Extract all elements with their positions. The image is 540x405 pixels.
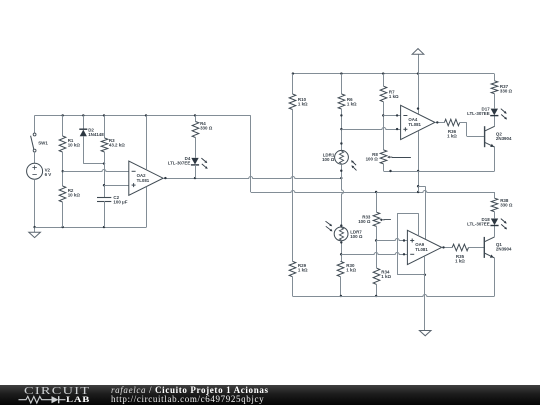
wire Q2 emitter down bbox=[494, 147, 496, 171]
svg-text:R351 kΩ: R351 kΩ bbox=[455, 254, 465, 263]
diode D2 bbox=[79, 129, 87, 136]
label D2 1N4148 bbox=[88, 127, 104, 136]
wire OA9 V- pin to ground bbox=[424, 256, 426, 330]
transistor Q2 bbox=[485, 126, 495, 147]
label R33 100 bbox=[358, 214, 371, 223]
svg-text:R101 kΩ: R101 kΩ bbox=[298, 97, 308, 106]
wire OA4 V- pin down to mid rail bbox=[417, 131, 419, 192]
junction dots bottom-left rail bbox=[62, 226, 106, 228]
svg-text:R291 kΩ: R291 kΩ bbox=[298, 263, 308, 272]
wire R8 bottom lead bbox=[383, 164, 385, 171]
footer url line bbox=[111, 394, 264, 404]
label R35 1k bbox=[455, 254, 465, 263]
LED D17 emission arrows bbox=[501, 109, 507, 120]
wire V2 to ground bbox=[34, 179, 36, 232]
resistor R38 bbox=[491, 198, 498, 212]
label Q1 2N3904 bbox=[496, 242, 512, 251]
label R8 100 bbox=[366, 152, 379, 161]
resistor R35 bbox=[452, 244, 468, 251]
power flag VCC arrow bbox=[412, 49, 424, 74]
wire D2 bottom L to R3 node bbox=[83, 136, 105, 165]
wire R1-R2 junction node A bbox=[62, 152, 64, 186]
svg-text:R361 kΩ: R361 kΩ bbox=[447, 129, 457, 138]
resistor R10 bbox=[289, 94, 296, 110]
svg-text:LDR1100 Ω: LDR1100 Ω bbox=[322, 153, 335, 162]
wire VCC to OA4 V+ pin bbox=[417, 74, 419, 114]
label R3 43.2k bbox=[109, 138, 125, 147]
svg-text:R301 kΩ: R301 kΩ bbox=[346, 263, 356, 272]
wire OA2 inverting input from R1-R2 node bbox=[63, 170, 129, 172]
label D17 LTL-307EE bbox=[467, 107, 490, 116]
label R6 1k bbox=[347, 97, 357, 106]
wire OA2 output node OUT1 bbox=[163, 177, 341, 179]
wire R33 to node C bbox=[375, 226, 377, 241]
LED D18 emission arrows bbox=[501, 219, 507, 230]
wire OA9 feedback vertical bbox=[397, 213, 426, 276]
wire R38 to D18 bbox=[494, 212, 496, 219]
resistor R1 bbox=[59, 136, 66, 152]
svg-text:C2100 μF: C2100 μF bbox=[113, 195, 127, 204]
wire rail drop from top-left rail bbox=[250, 115, 252, 192]
wire OA4 non-inverting input line bbox=[341, 128, 400, 131]
wire emitter return line Q2 bbox=[384, 170, 495, 172]
label SW1 bbox=[38, 141, 48, 146]
svg-text:SW1: SW1 bbox=[38, 141, 48, 146]
resistor R6 bbox=[338, 94, 345, 109]
CircuitLab logo glyph wire-resistor-diode bbox=[18, 395, 66, 405]
LED D18 bbox=[490, 219, 498, 226]
wire bottom-left rail node 0 bbox=[35, 227, 147, 229]
resistor R3 bbox=[101, 138, 108, 152]
wire R3 top lead bbox=[104, 115, 106, 138]
svg-text:LDR7100 Ω: LDR7100 Ω bbox=[350, 229, 363, 238]
label R4 330 bbox=[200, 121, 213, 130]
node junction dots on top-left rail bbox=[62, 114, 197, 116]
potentiometer R8 bbox=[380, 150, 411, 164]
svg-text:D18LTL-307EE: D18LTL-307EE bbox=[467, 217, 490, 226]
junction dot bottom-left rail at V2 bbox=[33, 226, 35, 228]
svg-text:V26 V: V26 V bbox=[45, 167, 52, 176]
wire R33 top lead from mid rail bbox=[376, 192, 378, 212]
ground symbol left bbox=[29, 232, 41, 237]
svg-text:R110 kΩ: R110 kΩ bbox=[68, 138, 81, 147]
svg-text:R37330 Ω: R37330 Ω bbox=[500, 84, 513, 93]
wire R1 top lead bbox=[62, 115, 64, 136]
wire R35 to Q1 base bbox=[469, 247, 485, 249]
wire LDR1 bottom to LDR7 top bbox=[340, 164, 343, 227]
wire top-right rail bbox=[293, 73, 494, 75]
wire OA9 non-inverting input line bbox=[376, 239, 407, 242]
label V2 6V bbox=[45, 167, 52, 176]
label D4 LTL-307EE bbox=[168, 156, 191, 165]
svg-text:R61 kΩ: R61 kΩ bbox=[347, 97, 357, 106]
op-amp OA2 bbox=[129, 161, 163, 195]
potentiometer R33 bbox=[373, 212, 391, 226]
wire OA4 output bbox=[435, 121, 444, 123]
junction dots top-right rail bbox=[292, 72, 420, 74]
wire top-left rail node VCC-left bbox=[35, 115, 251, 117]
resistor R36 bbox=[444, 119, 459, 126]
svg-text:R8100 Ω: R8100 Ω bbox=[366, 152, 379, 161]
resistor R34 bbox=[373, 268, 380, 284]
wire R4 to D4 bbox=[195, 138, 197, 158]
wire D4 bottom lead bbox=[195, 165, 197, 178]
voltage source V2 bbox=[27, 163, 43, 179]
svg-text:R71 kΩ: R71 kΩ bbox=[389, 89, 399, 98]
svg-text:R210 kΩ: R210 kΩ bbox=[68, 188, 81, 197]
resistor R37 bbox=[491, 81, 498, 94]
svg-text:R4330 Ω: R4330 Ω bbox=[200, 121, 213, 130]
label R34 1k bbox=[381, 270, 391, 279]
junction dots on OA2 output bbox=[164, 177, 342, 179]
wire SW1 to V2 bbox=[34, 152, 36, 163]
svg-text:R341 kΩ: R341 kΩ bbox=[381, 270, 391, 279]
wire R10-R29 long column bbox=[292, 110, 294, 262]
label R36 1k bbox=[447, 129, 457, 138]
wire D2 top lead bbox=[83, 115, 85, 128]
label D18 LTL-307EE bbox=[467, 217, 490, 226]
label LDR7 100 bbox=[350, 229, 363, 238]
junction dots mid rail bbox=[375, 191, 419, 193]
wire LDR7 bottom to node D bbox=[340, 224, 343, 261]
wire R29 bottom corner bbox=[292, 277, 294, 296]
transistor Q1 bbox=[484, 237, 494, 258]
wire R4 top lead bbox=[195, 115, 197, 121]
wire C2 bottom lead bbox=[104, 201, 106, 227]
wire R37 top lead bbox=[494, 74, 496, 81]
wire R38 top lead bbox=[494, 192, 496, 198]
label R38 330 bbox=[500, 198, 513, 207]
wire Q1 collector up to D18 bbox=[494, 226, 496, 237]
wire R10 top lead bbox=[292, 74, 294, 94]
CircuitLab logo text bbox=[24, 386, 90, 397]
wire Q2 collector up to D17 bbox=[494, 116, 496, 127]
LED D4 emission arrows bbox=[201, 158, 207, 169]
photoresistor LDR1 bbox=[335, 150, 357, 170]
label R2 10k bbox=[68, 188, 81, 197]
label LDR1 100 bbox=[322, 153, 335, 162]
svg-text:R343.2 kΩ: R343.2 kΩ bbox=[109, 138, 125, 147]
wire mid rail node VCC-mid bbox=[251, 191, 495, 193]
resistor R4 bbox=[192, 122, 199, 138]
wire R6 to LDR1 bbox=[340, 109, 342, 150]
footer bar bbox=[0, 385, 540, 405]
svg-text:Q22N3904: Q22N3904 bbox=[496, 132, 512, 141]
label Q2 2N3904 bbox=[496, 132, 512, 141]
ground symbol bottom bbox=[419, 331, 431, 336]
svg-text:D17LTL-307EE: D17LTL-307EE bbox=[467, 107, 490, 116]
photoresistor LDR7 bbox=[326, 221, 349, 241]
wire R2 bottom lead bbox=[62, 202, 64, 227]
wire OA2 V- pin bbox=[146, 187, 148, 227]
wire R3 to C2 node B bbox=[103, 152, 105, 197]
svg-text:R38330 Ω: R38330 Ω bbox=[500, 198, 513, 207]
wire OA4 inverting input line bbox=[383, 114, 400, 116]
resistor R30 bbox=[337, 261, 344, 276]
capacitor C2 bbox=[97, 198, 111, 202]
wire OA9 feedback top bbox=[397, 213, 418, 236]
LED D4 bbox=[191, 158, 199, 165]
wire R30 bottom lead bbox=[340, 277, 342, 297]
LED D17 bbox=[490, 109, 498, 116]
wire OA4 V- jog to OA9 V+ chain bbox=[418, 186, 425, 188]
svg-text:D4LTL-307EE: D4LTL-307EE bbox=[168, 156, 191, 165]
op-amp OA4 bbox=[401, 105, 435, 139]
resistor R7 bbox=[380, 86, 387, 102]
label R30 1k bbox=[346, 263, 356, 272]
wire bottom rail node 0b bbox=[292, 295, 494, 297]
label C2 100uF bbox=[113, 195, 127, 204]
resistor R2 bbox=[59, 186, 66, 202]
label R7 1k bbox=[389, 89, 399, 98]
label R29 1k bbox=[298, 263, 308, 272]
svg-text:D21N4148: D21N4148 bbox=[88, 127, 104, 136]
svg-text:Q12N3904: Q12N3904 bbox=[496, 242, 512, 251]
wire OA2 V+ pin bbox=[146, 115, 148, 169]
footer title line bbox=[111, 385, 269, 395]
wire R37 to D17 bbox=[494, 94, 496, 109]
label R1 10k bbox=[68, 138, 81, 147]
switch SW1 bbox=[31, 133, 36, 152]
wire R7 top lead bbox=[383, 74, 385, 87]
wire R34 leads bbox=[375, 241, 377, 298]
wire R36 to Q2 base bbox=[460, 122, 485, 136]
wire V2 column top bbox=[34, 115, 36, 133]
op-amp OA9 bbox=[407, 230, 441, 264]
wire OA9 output bbox=[442, 246, 453, 248]
label R10 1k bbox=[298, 97, 308, 106]
resistor R29 bbox=[289, 261, 296, 276]
label R37 330 bbox=[500, 84, 513, 93]
wire chain down to OA9 V+ pin bbox=[425, 186, 427, 239]
wire Q1 emitter down to rail bbox=[494, 258, 496, 296]
wire R6 top lead bbox=[341, 74, 343, 94]
svg-text:R33100 Ω: R33100 Ω bbox=[358, 214, 371, 223]
wire OA2 non-inverting input from node B bbox=[104, 185, 129, 187]
wire R7 to R8 column bbox=[382, 102, 384, 150]
wire OA9 inverting input line bbox=[341, 253, 407, 256]
